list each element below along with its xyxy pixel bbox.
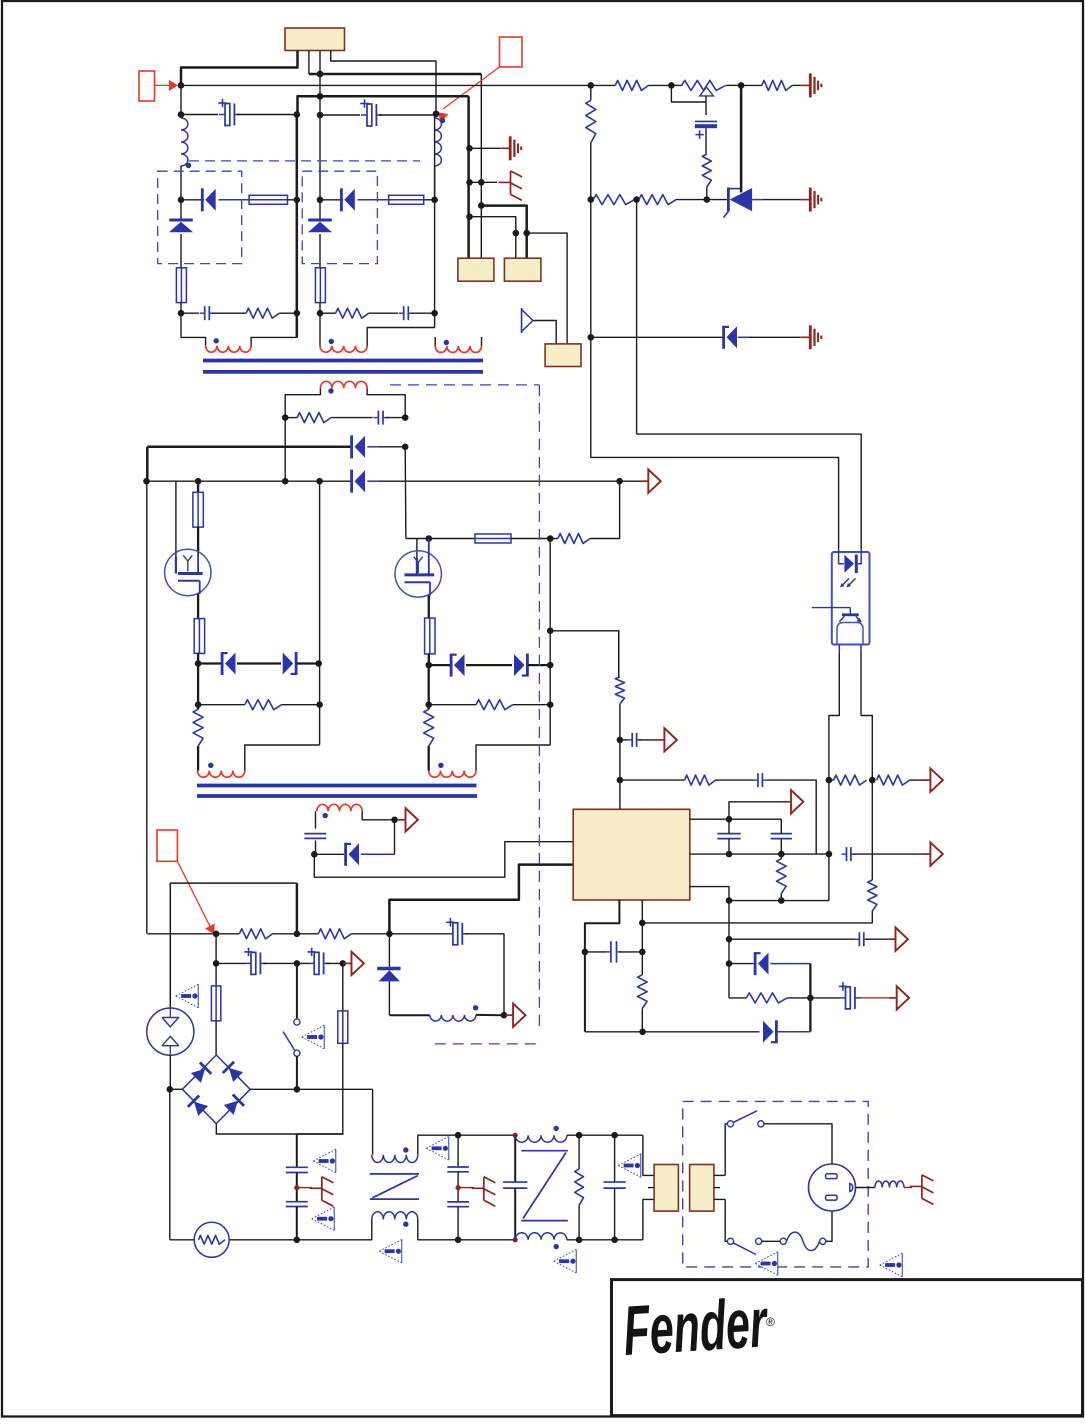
wire pinC spine down bbox=[728, 901, 730, 998]
junction R10 row left bbox=[195, 701, 202, 708]
bridge rectifier BR1 bbox=[182, 1055, 250, 1124]
transformer T1 winding W3 (red) bbox=[434, 337, 436, 346]
junction spine2/opto wire bbox=[547, 628, 554, 635]
wire opto emitter down bbox=[829, 652, 839, 900]
junction R17 row bbox=[617, 777, 624, 784]
resistor R11 (vertical) bbox=[193, 709, 203, 746]
junction bridge/switch bbox=[294, 1086, 301, 1093]
wire W7 right lead bbox=[362, 811, 394, 820]
wire bus to box A bbox=[467, 96, 470, 258]
warning triangle WT7 bbox=[618, 1154, 641, 1178]
junction snubber left bbox=[282, 414, 289, 421]
wire Q1 chain down bbox=[197, 664, 199, 710]
diode D12 row bbox=[585, 1031, 760, 1033]
junction pin3/bus bbox=[317, 71, 324, 78]
capacitor C13 row bbox=[729, 938, 855, 940]
junction cell1 bottom right bbox=[294, 310, 301, 317]
wire W6 return bbox=[476, 745, 550, 771]
wire C9 to feedback node bbox=[767, 780, 816, 854]
wire R14 to winding W6 bbox=[428, 746, 430, 771]
junction SCR row bbox=[704, 196, 711, 203]
diode D5 row (net GD) bbox=[147, 480, 353, 482]
inductor L2 (vertical coil) bbox=[435, 118, 442, 166]
flag F-OUT (dark red) bbox=[504, 1014, 507, 1016]
capacitor C14 (electrolytic) bbox=[810, 997, 840, 999]
wire cell2 left spine bbox=[319, 115, 321, 200]
resistor R8 bbox=[639, 195, 676, 205]
wire L2 down bbox=[434, 166, 436, 200]
wire R12 up to GD bbox=[590, 481, 620, 538]
wire cell2 to winding W2 bbox=[319, 313, 321, 346]
dual diode D9 (right) bbox=[466, 664, 512, 666]
junction pin3 / N96 bbox=[317, 93, 324, 100]
flag F-HV (dark red) bbox=[344, 962, 352, 964]
wire rail to Y-caps bbox=[297, 1133, 344, 1135]
wire N96 bbox=[298, 96, 469, 114]
inductor L4 (earth coil) bbox=[875, 1181, 904, 1188]
junction D11 row bbox=[726, 960, 733, 967]
junction bridge left bbox=[167, 1086, 174, 1093]
diode D11 bbox=[729, 963, 754, 965]
resistor R13 bbox=[429, 704, 476, 706]
junction bottom rail/caps bbox=[294, 1237, 301, 1244]
junction node A bbox=[178, 82, 185, 89]
wire rail to transformer T3 bbox=[643, 1135, 654, 1175]
wire C7 down bbox=[315, 840, 317, 854]
junction cell2 bottom left bbox=[317, 310, 324, 317]
choke CH1 core Z bbox=[370, 1173, 419, 1175]
wire node A down to cap row bbox=[180, 85, 182, 118]
wire W2 return bbox=[367, 313, 434, 346]
junction GND row bbox=[639, 920, 646, 927]
capacitor C3 (electrolytic) bbox=[320, 114, 360, 116]
wire W4 right lead bbox=[367, 388, 405, 417]
connector J1 (top label box) bbox=[285, 28, 345, 51]
zener diode Z1 bbox=[180, 200, 182, 219]
choke CH1 winding top bbox=[372, 1089, 374, 1154]
junction L3/flag bbox=[501, 1012, 508, 1019]
flag F-C8 (dark red) bbox=[656, 739, 664, 741]
junction cap row right bbox=[294, 111, 301, 118]
wire R16 top bbox=[618, 631, 620, 677]
optocoupler U2 bbox=[832, 552, 870, 645]
wire U1 pinA bbox=[690, 818, 729, 820]
capacitor C2 bbox=[181, 312, 199, 314]
junction cell1 bottom left bbox=[178, 310, 185, 317]
fuse F10 (vertical) bbox=[211, 986, 220, 1021]
junction drain fuse top bbox=[195, 478, 202, 485]
junction D4/W4 bbox=[402, 444, 409, 451]
bridge diode BR1-c bbox=[194, 1102, 208, 1116]
wire bridge left lead bbox=[170, 1088, 183, 1090]
junction bus row216 bbox=[466, 213, 473, 220]
resistor R20 (vertical) bbox=[780, 854, 782, 859]
wire J1 pin1 to node left bus bbox=[181, 51, 298, 86]
flag FB1 (blue) to box C bbox=[521, 308, 523, 333]
junction R13 row right bbox=[547, 701, 554, 708]
capacitor C4 bbox=[403, 306, 405, 320]
wire pinA to flag bbox=[729, 802, 784, 819]
wire Q2 source bbox=[428, 596, 430, 619]
capacitor C12 bbox=[846, 847, 848, 861]
wire opto collector down bbox=[861, 652, 872, 880]
chassis ground CG1 bbox=[470, 181, 498, 183]
junction pot right bbox=[738, 82, 745, 89]
junction Q1 source row bbox=[195, 660, 202, 667]
diode D1 bbox=[181, 199, 204, 201]
bridge diode BR1-d bbox=[224, 1101, 238, 1115]
resistor R3 bbox=[591, 84, 616, 86]
resistor R17 bbox=[620, 779, 685, 781]
flag F-CT (dark red) bbox=[783, 801, 791, 803]
wire R11 to winding W5 bbox=[197, 746, 199, 771]
fuse F8 (vertical) bbox=[425, 618, 435, 654]
junction cell2 top left bbox=[317, 112, 324, 119]
junction pinB nodes bbox=[726, 851, 733, 858]
cord loop bbox=[780, 1238, 786, 1244]
warning triangle WT3 bbox=[176, 984, 199, 1008]
wire R7 node down bbox=[636, 200, 638, 435]
warning triangle WT1 bbox=[313, 1149, 336, 1173]
junction bus2/CG1 bbox=[466, 179, 473, 186]
diode D2 bbox=[320, 199, 343, 201]
junction bus/CG0 bbox=[466, 145, 473, 152]
wire J1 pin4 to node B bbox=[331, 51, 436, 114]
resistor R10 bbox=[198, 704, 245, 706]
junction D9/spine2 bbox=[547, 662, 554, 669]
dashed box cell2 bbox=[302, 171, 377, 263]
junction F7/spine2 bbox=[547, 535, 554, 542]
junction aux flag node bbox=[391, 817, 398, 824]
junction D7/mid spine bbox=[315, 660, 322, 667]
junction D2 row left bbox=[317, 197, 324, 204]
wire row 233 to box C bbox=[527, 233, 567, 344]
off-page flag FL2 (red) bbox=[500, 37, 523, 67]
connector J3 (label box B) bbox=[504, 258, 541, 281]
resistor R22 (vertical) bbox=[638, 975, 648, 1009]
capacitor C16 (electrolytic) bbox=[389, 933, 448, 935]
wire R15 to GND row bbox=[642, 911, 872, 923]
capacitor C17 (electrolytic) bbox=[216, 962, 246, 964]
wire W1 return bbox=[251, 313, 297, 346]
AC plug P1 bbox=[809, 1164, 856, 1211]
MOSFET Q1 bbox=[165, 549, 211, 595]
resistor R5 (vertical) bbox=[590, 85, 592, 100]
junction R5 bottom bbox=[588, 196, 595, 203]
fuse F1 bbox=[249, 195, 287, 204]
wire mid spine bbox=[319, 481, 321, 745]
wire Q1 source bbox=[197, 594, 199, 619]
junction Q2 drain row bbox=[426, 535, 433, 542]
thermistor RT1 bbox=[169, 1089, 171, 1240]
connector J4 (label box C) bbox=[545, 344, 581, 367]
wire J1 pin2 thick bus bbox=[308, 51, 310, 75]
resistor R25 (vertical) bbox=[578, 1135, 580, 1169]
title box bbox=[612, 1280, 1083, 1416]
resistor R14 (vertical) bbox=[424, 709, 434, 746]
capacitor C7 bbox=[304, 833, 326, 835]
resistor R2 bbox=[320, 312, 336, 314]
net N85 horizontal wire bbox=[181, 84, 591, 86]
zener diode Z3 bbox=[388, 934, 390, 967]
resistor R23 bbox=[216, 933, 239, 935]
X-cap C21 bbox=[455, 1132, 462, 1139]
spark gap GAP1 bbox=[147, 1008, 194, 1055]
wire node1 down bbox=[215, 934, 217, 964]
transformer T3 secondary box bbox=[690, 1165, 714, 1212]
connector J2 (label box A) bbox=[458, 258, 494, 281]
wire to optocoupler LED cathode bbox=[637, 434, 862, 550]
junction D5/snubber bbox=[282, 478, 289, 485]
resistor R4 bbox=[741, 84, 762, 86]
wire cord to plug bbox=[826, 1211, 832, 1241]
svg-text:Fender: Fender bbox=[621, 1283, 771, 1370]
flag F-RT (dark red) bbox=[888, 938, 896, 940]
chassis ground CG3 bbox=[458, 1187, 474, 1189]
Y-cap C19/C20 pair bbox=[296, 1134, 298, 1167]
capacitor C6 bbox=[377, 411, 379, 425]
dashed box primary block bbox=[390, 384, 539, 386]
resistor R9 bbox=[285, 417, 297, 419]
junction out node2 bbox=[294, 931, 301, 938]
T3 secondary pins bbox=[714, 1174, 725, 1176]
resistor R1 bbox=[246, 308, 279, 318]
diode D10 bbox=[314, 853, 344, 855]
warning triangle WT10 bbox=[880, 1253, 903, 1277]
flag F-GD (dark red) bbox=[620, 480, 641, 482]
wire left rail (long vertical) bbox=[146, 481, 148, 934]
pot wiper wire bbox=[671, 85, 706, 102]
junction R25 top bbox=[576, 1132, 583, 1139]
warning triangle WT6 bbox=[379, 1239, 402, 1263]
output main row bbox=[148, 933, 217, 935]
dashed box cell1 bbox=[158, 171, 242, 263]
bridge diode BR1-b bbox=[229, 1068, 243, 1082]
diode D3 bbox=[591, 336, 723, 338]
junction D5/flag bbox=[616, 478, 623, 485]
junction R18/R19 bbox=[869, 777, 876, 784]
junction X-cap midpoint bbox=[456, 1185, 461, 1190]
junction cell2 bottom right bbox=[431, 310, 438, 317]
wire R5 chain down bbox=[590, 200, 592, 338]
thyristor Q3 (SCR) bbox=[707, 199, 727, 201]
wire IC pin2 to output node bbox=[389, 865, 573, 934]
wire F5 to Q1 drain bbox=[197, 527, 199, 552]
X-cap C22 bbox=[514, 1135, 516, 1182]
wire Q2 chain down bbox=[428, 665, 430, 709]
transformer T2 winding W5 (red) bbox=[198, 771, 245, 778]
junction D12/R22 bbox=[639, 1029, 646, 1036]
wire cell1 right spine bbox=[296, 115, 299, 338]
diode D4 row bbox=[147, 446, 352, 449]
junction bus2 row205 bbox=[478, 202, 485, 209]
capacitor C8 bbox=[620, 739, 628, 741]
wire to optocoupler LED anode bbox=[591, 337, 839, 550]
diode D12 bbox=[763, 1021, 774, 1043]
wire gate Q2 bbox=[416, 539, 418, 559]
junction Q2 source row bbox=[426, 662, 433, 669]
junction cap bank row bbox=[213, 960, 220, 967]
transformer T2 winding W7 aux (red) bbox=[317, 804, 362, 811]
wire snubber left down bbox=[284, 418, 286, 482]
junction pinC nodes bbox=[726, 897, 733, 904]
capacitor C11 bbox=[771, 833, 792, 835]
wire rail after CH2 bottom bbox=[567, 1239, 643, 1241]
wire D10 up to flag node bbox=[394, 820, 396, 855]
IC U1 (PWM controller) bbox=[573, 809, 690, 900]
inductor L3 winding bbox=[389, 1014, 429, 1016]
junction C15 row bbox=[582, 949, 589, 956]
junction out node1 bbox=[213, 931, 220, 938]
wire U1 Vcc chain up bbox=[619, 704, 621, 809]
X-cap C23 bbox=[614, 1135, 616, 1182]
junction R25 bottom bbox=[576, 1237, 583, 1244]
svg-text:®: ® bbox=[766, 1315, 775, 1329]
inductor L1 (vertical coil) bbox=[181, 118, 188, 166]
junction box B pins bbox=[513, 230, 520, 237]
wire L1 to diode row bbox=[180, 166, 182, 200]
junction Y-cap midpoint bbox=[294, 1185, 299, 1190]
resistor R19 bbox=[877, 775, 910, 785]
junction R7/R8 bbox=[633, 196, 640, 203]
capacitor C15 bbox=[585, 951, 606, 953]
wire U1 GND pin down bbox=[585, 900, 620, 1032]
junction R21/C14 bbox=[807, 995, 814, 1002]
wire D4 corner down bbox=[146, 447, 149, 481]
wire U1 pinB row bbox=[690, 853, 829, 855]
wire Q2 drain net from W4 bbox=[404, 447, 407, 539]
zener diode Z2 bbox=[319, 200, 321, 219]
fuse F6 (vertical) bbox=[194, 619, 204, 654]
MOSFET Q2 bbox=[395, 551, 441, 597]
dashed box AC inlet bbox=[683, 1101, 869, 1267]
transformer T1 winding W1 (red) bbox=[206, 346, 252, 352]
transformer T1 core bbox=[203, 359, 483, 363]
junction N85/R3 bbox=[588, 82, 595, 89]
junction R10 row right bbox=[316, 701, 323, 708]
wire to PWM feed bbox=[550, 631, 619, 677]
wire W5 return bbox=[245, 745, 320, 771]
ground G2 bbox=[800, 199, 810, 201]
wire pinA extension to C11 bbox=[729, 818, 781, 820]
potentiometer VR1 bbox=[671, 84, 681, 86]
transformer T2 core bbox=[197, 784, 477, 788]
capacitor C1 (electrolytic) bbox=[181, 114, 218, 116]
wire cell1 to winding W1 bbox=[181, 313, 206, 346]
transformer T3 primary box bbox=[654, 1165, 678, 1212]
junction pinA node bbox=[726, 816, 733, 823]
bridge diode BR1-a bbox=[191, 1069, 205, 1083]
enclosure wire top bbox=[170, 883, 297, 1008]
Fender logo bbox=[621, 1283, 771, 1370]
choke CH2 core Z bbox=[521, 1150, 568, 1152]
wire rail after CH2 top bbox=[567, 1134, 643, 1136]
switch SW2 (line) bbox=[725, 1124, 727, 1176]
choke CH2 winding bottom bbox=[515, 1233, 567, 1240]
resistor R16 (vertical) bbox=[615, 677, 624, 704]
off-page flag FL1 (red) bbox=[139, 71, 155, 101]
junction R13 row left bbox=[425, 701, 432, 708]
dual diode D7 (right) bbox=[237, 662, 281, 664]
junction R3/pot bbox=[668, 82, 675, 89]
junction aux diode row bbox=[311, 851, 318, 858]
wire cell2 right spine bbox=[434, 115, 436, 313]
fuse F3 bbox=[389, 195, 424, 204]
capacitor C9 bbox=[757, 773, 759, 787]
wire jog to drain bbox=[406, 538, 429, 540]
flag F-FB (dark red) bbox=[922, 779, 930, 781]
junction snubber right bbox=[402, 414, 409, 421]
capacitor C5 (electrolytic vertical) bbox=[705, 102, 707, 115]
flag F-SS (dark red) bbox=[889, 997, 897, 999]
switch SW1 (mains) bbox=[296, 963, 298, 1019]
choke CH1 winding bottom bbox=[372, 1212, 418, 1220]
junction opto emitter/R18 bbox=[826, 777, 833, 784]
chassis ground CG0 bbox=[470, 147, 501, 149]
ground G3 bbox=[800, 336, 810, 338]
dual diode D6 (left) bbox=[198, 662, 221, 664]
wire bridge right row bbox=[250, 1088, 372, 1090]
capacitor C18 (electrolytic) bbox=[297, 962, 310, 964]
capacitor C10 bbox=[717, 833, 740, 835]
wire bridge bottom bbox=[216, 1124, 342, 1134]
junction D2 row right bbox=[431, 197, 438, 204]
resistor R15 (vertical) bbox=[868, 880, 877, 911]
junction diode row D3 bbox=[588, 334, 595, 341]
junction cap row left bbox=[178, 111, 185, 118]
wire U1 pin down2 bbox=[641, 900, 643, 975]
warning triangle WT9 bbox=[755, 1252, 778, 1276]
warning triangle WT2 bbox=[312, 1207, 335, 1231]
wire aux to IC pin1 bbox=[314, 842, 573, 878]
fuse F9 chain bbox=[342, 963, 344, 1011]
junction C8 row bbox=[617, 737, 624, 744]
off-page flag FL3 (red) bbox=[157, 830, 177, 861]
wire U1 pinC row bbox=[690, 887, 729, 901]
resistor R21 bbox=[729, 997, 746, 999]
junction R21 row bbox=[726, 936, 733, 943]
warning triangle WT4 bbox=[302, 1025, 325, 1049]
transformer T2 winding W6 (red) bbox=[429, 771, 476, 778]
junction cap bank mid bbox=[294, 960, 301, 967]
dual diode D8 (left) bbox=[429, 664, 451, 666]
resistor R7 bbox=[591, 199, 593, 201]
junction out node3 bbox=[386, 931, 393, 938]
wire spine2 bbox=[549, 539, 551, 746]
warning triangle WT5 bbox=[426, 1137, 449, 1161]
chassis ground CG2 bbox=[297, 1187, 312, 1189]
junction D1 row right bbox=[294, 197, 301, 204]
dashed line upper bbox=[189, 160, 420, 162]
wire gap to bridge row bbox=[169, 1055, 171, 1089]
transformer T2 primary winding W4 (red) bbox=[320, 381, 367, 388]
wire W4 left lead bbox=[285, 388, 320, 417]
junction D1 row left bbox=[178, 197, 185, 204]
junction rail/choke2 bbox=[513, 1133, 518, 1138]
fuse F4 (vertical) bbox=[315, 268, 325, 303]
fuse F2 (vertical) bbox=[176, 268, 186, 303]
junction cap bank right bbox=[340, 960, 347, 967]
resistor R12 bbox=[550, 538, 558, 540]
resistor R24 bbox=[297, 933, 318, 935]
junction node B bbox=[433, 111, 440, 118]
wire row 205.6 to box B right pin bbox=[481, 206, 526, 234]
wire row 216.7 to box B left pin bbox=[470, 217, 516, 233]
flag F-AUX (dark red) bbox=[395, 819, 400, 821]
ground G1 bbox=[800, 84, 810, 86]
junction D5/mid spine bbox=[316, 478, 323, 485]
fuse F7 bbox=[429, 538, 475, 540]
